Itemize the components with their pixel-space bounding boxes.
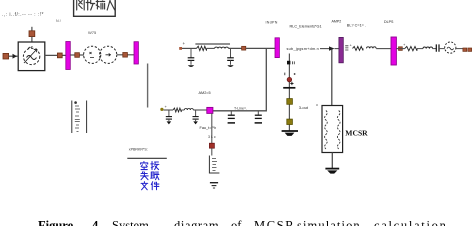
svg-text:.,: i..f/:.-- -- : :!*: .,: i..f/:.-- -- : :!*	[2, 12, 44, 18]
svg-text:+: +	[183, 41, 186, 46]
svg-text:sub_jpgsm+dm.n: sub_jpgsm+dm.n	[287, 47, 320, 51]
svg-text:AMP2: AMP2	[332, 19, 342, 23]
svg-text:o: o	[316, 103, 318, 107]
svg-text:Fau_t=Ph: Fau_t=Ph	[200, 126, 217, 130]
svg-text:xPBRKR*S:: xPBRKR*S:	[129, 148, 148, 152]
svg-text:INdPN: INdPN	[266, 20, 278, 24]
svg-text:W75: W75	[88, 30, 97, 35]
svg-text:3 L c: 3 L c	[208, 135, 216, 139]
svg-text:N.!: N.!	[56, 19, 61, 23]
svg-text:BL? C=1= .: BL? C=1= .	[347, 24, 366, 28]
svg-text:AM2=5: AM2=5	[199, 91, 211, 95]
svg-text:T-Line=.: T-Line=.	[234, 106, 247, 110]
svg-text:MCSR: MCSR	[345, 129, 368, 138]
svg-text:RLC_Elements*G1: RLC_Elements*G1	[290, 25, 322, 29]
svg-text:3-out: 3-out	[299, 105, 309, 110]
svg-text:DLPS: DLPS	[384, 20, 394, 24]
